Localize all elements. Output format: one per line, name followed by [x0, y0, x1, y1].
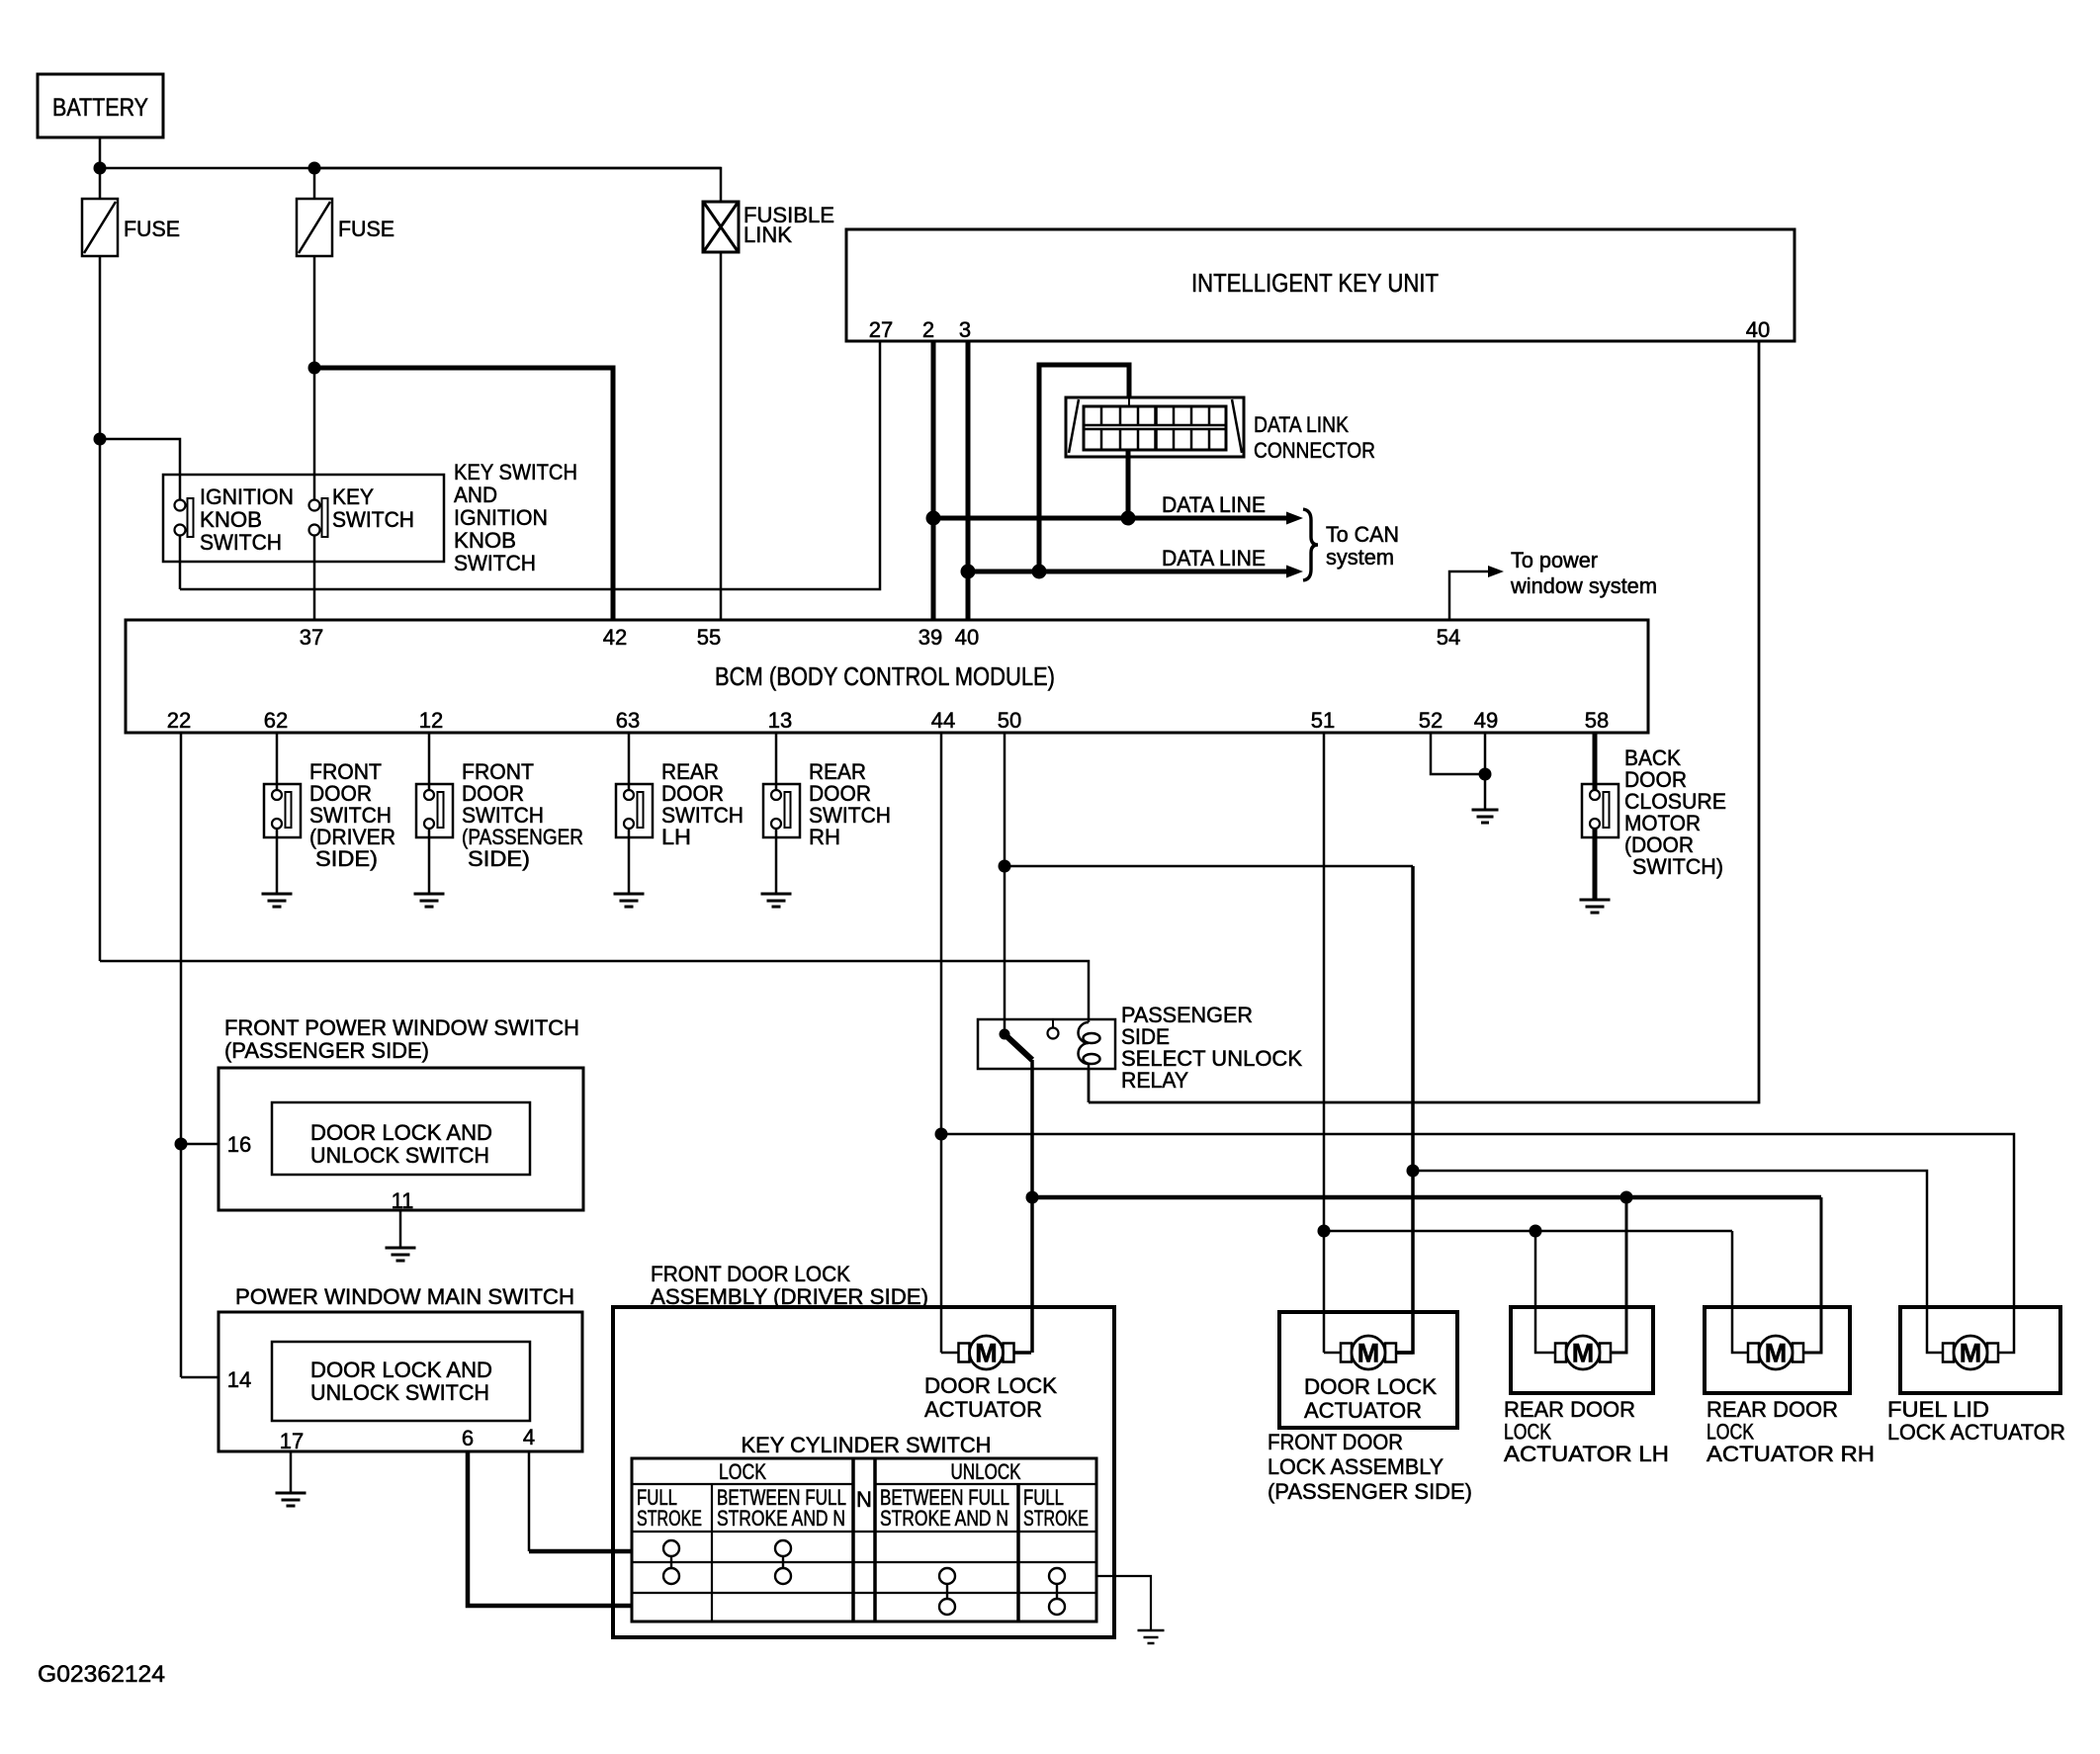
- svg-text:FRONT POWER WINDOW SWITCH: FRONT POWER WINDOW SWITCH: [224, 1015, 579, 1040]
- ground key cylinder: [1138, 1629, 1165, 1632]
- svg-text:58: 58: [1585, 708, 1609, 733]
- wire fusible link to pin55: [720, 252, 723, 620]
- wire top bus: [100, 167, 721, 170]
- wire BCM pin58 to back door motor: [1593, 733, 1598, 791]
- fusible link: [703, 202, 739, 252]
- svg-text:POWER WINDOW MAIN SWITCH: POWER WINDOW MAIN SWITCH: [235, 1284, 574, 1309]
- svg-text:UNLOCK SWITCH: UNLOCK SWITCH: [310, 1143, 489, 1168]
- svg-text:16: 16: [227, 1132, 251, 1157]
- wire pin11 to ground: [399, 1210, 402, 1248]
- node lock feed LH junction: [1620, 1191, 1633, 1204]
- svg-text:KNOB: KNOB: [200, 507, 262, 532]
- wire fuse1 bottom lead: [99, 256, 102, 439]
- svg-text:17: 17: [280, 1429, 304, 1453]
- wire pin50 branch right: [1005, 865, 1413, 868]
- wire to pin14: [181, 1376, 219, 1379]
- svg-text:RELAY: RELAY: [1121, 1068, 1188, 1093]
- door lock and unlock switch box (passenger): [272, 1102, 530, 1175]
- svg-text:ACTUATOR: ACTUATOR: [1304, 1398, 1422, 1423]
- door lock and unlock switch box (main): [272, 1342, 530, 1421]
- wire BCM pin52: [1431, 733, 1479, 774]
- wire ignition knob to pin27 line: [179, 535, 182, 589]
- ground pin17: [276, 1492, 306, 1495]
- rear door lock actuator RH box: [1705, 1307, 1850, 1393]
- svg-text:SIDE): SIDE): [315, 846, 378, 871]
- fuel lid lock actuator motor: [1943, 1344, 1954, 1362]
- svg-text:M: M: [1572, 1339, 1595, 1368]
- wire pin17 to ground: [290, 1451, 293, 1493]
- wire BCM pin22 down: [180, 733, 183, 1377]
- svg-text:FUSE: FUSE: [124, 217, 180, 241]
- wire front door switch passenger to ground: [428, 829, 431, 894]
- wire lock feed (thick): [1032, 1195, 1821, 1200]
- node pin49 junction: [1479, 768, 1492, 781]
- rear door switch LH: [616, 784, 653, 837]
- wire pin44 elbow to motor: [941, 1352, 959, 1355]
- svg-text:62: 62: [264, 708, 288, 733]
- svg-text:ACTUATOR: ACTUATOR: [924, 1397, 1042, 1422]
- wire IKU pin40 down: [1089, 341, 1759, 1102]
- rear door switch RH: [763, 784, 800, 837]
- svg-text:G02362124: G02362124: [38, 1661, 165, 1688]
- node x1429 junction: [1407, 1165, 1420, 1178]
- node key switch feed junction: [308, 362, 321, 375]
- relay fixed contact: [1052, 1019, 1054, 1027]
- svg-text:SWITCH: SWITCH: [332, 507, 414, 532]
- data line 2: [968, 570, 1287, 574]
- svg-text:SWITCH): SWITCH): [1632, 854, 1723, 879]
- wire BCM to front door switch driver: [276, 733, 279, 790]
- key cylinder unlock contacts x958: [939, 1568, 955, 1584]
- svg-text:44: 44: [931, 708, 955, 733]
- wire rear door switch LH to ground: [628, 829, 631, 894]
- svg-text:51: 51: [1311, 708, 1335, 733]
- wire pin51 elbow to motor: [1324, 1352, 1341, 1355]
- wire to power window system: [1449, 571, 1489, 620]
- svg-text:37: 37: [300, 625, 323, 650]
- node data line1 pin2 junction: [926, 511, 941, 526]
- node unlock feed LH junction: [1530, 1225, 1542, 1238]
- svg-text:SWITCH: SWITCH: [200, 530, 282, 555]
- svg-text:window system: window system: [1510, 573, 1657, 598]
- wire relay arm elbow to motor: [1014, 1351, 1032, 1355]
- svg-text:M: M: [1765, 1339, 1788, 1368]
- svg-text:DOOR LOCK AND: DOOR LOCK AND: [310, 1120, 492, 1145]
- wire battery bus to relay coil: [100, 961, 1089, 1019]
- wire pin4 down: [528, 1451, 531, 1551]
- wire relay coil to IKU pin40: [1088, 1069, 1091, 1102]
- svg-text:CONNECTOR: CONNECTOR: [1254, 438, 1375, 463]
- svg-text:49: 49: [1474, 708, 1498, 733]
- svg-text:KEY: KEY: [332, 484, 374, 509]
- svg-text:40: 40: [1746, 317, 1770, 342]
- node pin16 junction: [175, 1138, 188, 1151]
- front power window switch box: [219, 1068, 583, 1210]
- svg-text:STROKE: STROKE: [1023, 1506, 1089, 1531]
- wire unlock feed: [941, 1134, 2014, 1353]
- wire pin6 to key cylinder: [468, 1451, 632, 1606]
- battery: [38, 74, 163, 137]
- svg-text:M: M: [975, 1339, 998, 1368]
- svg-text:AND: AND: [454, 482, 497, 507]
- svg-text:IGNITION: IGNITION: [200, 484, 294, 509]
- svg-text:RH: RH: [809, 825, 840, 849]
- wire battery to ignition knob: [100, 439, 180, 500]
- back door closure motor switch: [1582, 784, 1619, 837]
- intelligent key unit box: [846, 229, 1794, 341]
- svg-text:To power: To power: [1511, 548, 1598, 572]
- ground front door switch passenger: [414, 893, 445, 896]
- svg-text:39: 39: [919, 625, 942, 650]
- front door switch driver: [264, 784, 301, 837]
- front door switch passenger: [416, 784, 453, 837]
- svg-text:STROKE AND N: STROKE AND N: [717, 1506, 845, 1531]
- svg-text:27: 27: [869, 317, 893, 342]
- wire key cylinder to ground: [1096, 1576, 1151, 1630]
- wire fuse1 top lead: [99, 168, 102, 199]
- wire back door motor to ground: [1593, 829, 1598, 900]
- svg-text:LOCK ACTUATOR: LOCK ACTUATOR: [1887, 1420, 2065, 1445]
- svg-text:4: 4: [523, 1425, 535, 1449]
- wire unlock feed to RH left: [1732, 1231, 1748, 1353]
- svg-text:UNLOCK: UNLOCK: [951, 1459, 1021, 1484]
- wire pin42 feed: [314, 368, 613, 620]
- node pin50 branch junction: [999, 860, 1011, 873]
- wire BCM pin49: [1484, 733, 1487, 810]
- svg-text:KEY SWITCH: KEY SWITCH: [454, 460, 577, 484]
- wire pin4 to key cylinder: [529, 1549, 632, 1554]
- wire to fuel lid left: [1413, 1171, 1943, 1353]
- fuse F1: [82, 199, 118, 256]
- relay coil: [1088, 1019, 1091, 1022]
- rear door lock actuator LH box: [1511, 1307, 1653, 1393]
- svg-text:IGNITION: IGNITION: [454, 505, 548, 530]
- wire BCM to front door switch passenger: [428, 733, 431, 790]
- relay arm: [1005, 1034, 1032, 1060]
- key cylinder unlock contacts x1069: [1049, 1568, 1065, 1584]
- svg-text:DOOR LOCK: DOOR LOCK: [1304, 1374, 1437, 1399]
- ground rear door switch LH: [614, 893, 645, 896]
- door lock actuator motor (passenger): [1341, 1344, 1352, 1362]
- svg-text:3: 3: [959, 317, 971, 342]
- wire key switch to BCM37: [313, 535, 316, 620]
- wire x1429 elbow to motor: [1396, 1351, 1413, 1355]
- wire DLC pass-through stubs: [1128, 397, 1130, 406]
- node pin44 junction: [935, 1128, 948, 1141]
- wire BCM to rear door switch RH: [775, 733, 778, 790]
- svg-text:BATTERY: BATTERY: [52, 94, 148, 122]
- front door lock assembly (driver side) box: [613, 1307, 1114, 1637]
- node fuse2 bus junction: [308, 162, 321, 175]
- svg-text:STROKE: STROKE: [637, 1506, 702, 1531]
- svg-text:STROKE AND N: STROKE AND N: [880, 1506, 1008, 1531]
- svg-text:DOOR LOCK AND: DOOR LOCK AND: [310, 1358, 492, 1382]
- svg-text:UNLOCK SWITCH: UNLOCK SWITCH: [310, 1380, 489, 1405]
- front door lock assembly (passenger side) box: [1279, 1312, 1457, 1428]
- rear door lock actuator RH motor: [1748, 1344, 1759, 1362]
- wire unlock feed 2: [1324, 1230, 1732, 1233]
- key cylinder lock contacts x792: [775, 1540, 791, 1556]
- svg-text:(PASSENGER SIDE): (PASSENGER SIDE): [224, 1038, 429, 1063]
- svg-text:FUEL LID: FUEL LID: [1887, 1397, 1989, 1422]
- BCM box: [126, 620, 1648, 733]
- rear door lock actuator LH motor: [1555, 1344, 1566, 1362]
- wire BCM pin51 down: [1323, 733, 1326, 1353]
- node data line2 DLC junction: [1032, 565, 1047, 579]
- ground back door motor: [1580, 899, 1611, 902]
- wire BCM pin44 down: [940, 733, 943, 1353]
- svg-text:ACTUATOR LH: ACTUATOR LH: [1504, 1442, 1669, 1466]
- svg-text:FRONT DOOR LOCK: FRONT DOOR LOCK: [651, 1262, 850, 1286]
- svg-text:ACTUATOR RH: ACTUATOR RH: [1706, 1442, 1875, 1466]
- wire unlock feed to LH left: [1535, 1231, 1555, 1353]
- wire relay arm down: [1030, 1060, 1034, 1353]
- wire fusible link top lead: [314, 168, 721, 202]
- svg-text:DOOR LOCK: DOOR LOCK: [924, 1373, 1057, 1398]
- node battery branch junction: [94, 433, 107, 446]
- svg-text:40: 40: [955, 625, 979, 650]
- svg-text:55: 55: [697, 625, 721, 650]
- svg-text:22: 22: [167, 708, 191, 733]
- wire IKU pin27 down: [180, 341, 880, 589]
- svg-text:INTELLIGENT KEY UNIT: INTELLIGENT KEY UNIT: [1191, 268, 1439, 298]
- wire IKU pin2 to BCM39: [931, 341, 936, 620]
- svg-text:52: 52: [1419, 708, 1443, 733]
- svg-text:12: 12: [419, 708, 443, 733]
- wire fuse2 top lead: [313, 168, 316, 199]
- node data line2 pin3 junction: [961, 565, 976, 579]
- node battery bus junction: [94, 162, 107, 175]
- svg-text:REAR DOOR: REAR DOOR: [1706, 1397, 1838, 1422]
- ground rear door switch RH: [761, 893, 792, 896]
- data line 1: [933, 516, 1287, 521]
- svg-text:M: M: [1960, 1339, 1982, 1368]
- svg-text:BCM (BODY CONTROL MODULE): BCM (BODY CONTROL MODULE): [715, 661, 1055, 691]
- svg-text:LINK: LINK: [744, 222, 792, 247]
- svg-text:2: 2: [922, 317, 934, 342]
- svg-text:(PASSENGER SIDE): (PASSENGER SIDE): [1268, 1479, 1472, 1504]
- svg-text:SIDE): SIDE): [468, 846, 530, 871]
- key switch and ignition knob switch box: [163, 475, 444, 562]
- fuel lid lock actuator box: [1900, 1307, 2060, 1393]
- node pin51 junction: [1318, 1225, 1331, 1238]
- svg-text:50: 50: [998, 708, 1021, 733]
- wire BCM pin50 down: [1004, 733, 1006, 1034]
- svg-text:11: 11: [392, 1188, 414, 1213]
- ground pin11: [386, 1247, 416, 1250]
- key switch: [309, 500, 320, 511]
- svg-text:DATA LINK: DATA LINK: [1254, 412, 1349, 437]
- svg-text:DATA LINE: DATA LINE: [1162, 546, 1266, 570]
- fuse F2: [297, 199, 332, 256]
- svg-text:LOCK: LOCK: [1504, 1420, 1551, 1445]
- svg-text:42: 42: [603, 625, 627, 650]
- svg-text:14: 14: [227, 1367, 251, 1392]
- to CAN brace: [1303, 509, 1318, 580]
- wire fuse2 bottom lead: [313, 256, 316, 368]
- svg-text:KNOB: KNOB: [454, 528, 516, 553]
- wire lock feed to LH right: [1611, 1197, 1626, 1353]
- relay common pivot: [1000, 1029, 1010, 1040]
- door lock actuator motor (driver): [959, 1344, 970, 1362]
- svg-text:To CAN: To CAN: [1326, 522, 1399, 547]
- svg-text:system: system: [1326, 545, 1394, 570]
- wire lock feed to RH right: [1803, 1197, 1821, 1353]
- wire x1429 vertical: [1396, 866, 1413, 1353]
- svg-text:DATA LINE: DATA LINE: [1162, 492, 1266, 517]
- wire DLC top elbow: [1039, 365, 1129, 571]
- wire battery main down: [99, 439, 102, 961]
- svg-text:N: N: [856, 1487, 872, 1512]
- wire rear door switch RH to ground: [775, 829, 778, 894]
- svg-text:54: 54: [1437, 625, 1460, 650]
- wire DLC bottom stem: [1126, 450, 1131, 518]
- wire IKU pin3 to BCM40: [966, 341, 971, 620]
- svg-text:FUSE: FUSE: [338, 217, 394, 241]
- node data line1 DLC junction: [1121, 511, 1136, 526]
- svg-text:FRONT DOOR: FRONT DOOR: [1268, 1430, 1403, 1454]
- svg-text:63: 63: [616, 708, 640, 733]
- svg-text:KEY CYLINDER SWITCH: KEY CYLINDER SWITCH: [742, 1433, 992, 1457]
- svg-text:LOCK ASSEMBLY: LOCK ASSEMBLY: [1268, 1454, 1444, 1479]
- ground front door switch driver: [262, 893, 293, 896]
- svg-text:6: 6: [462, 1426, 474, 1450]
- ground pin49: [1472, 809, 1499, 812]
- data link connector: [1066, 397, 1244, 457]
- node relay arm junction: [1026, 1191, 1039, 1204]
- wire fuse2 to key switch: [313, 368, 316, 500]
- power window main switch box: [219, 1312, 582, 1451]
- key cylinder switch table: [632, 1458, 1096, 1622]
- svg-text:REAR DOOR: REAR DOOR: [1504, 1397, 1635, 1422]
- svg-text:13: 13: [768, 708, 792, 733]
- svg-text:SWITCH: SWITCH: [454, 551, 536, 575]
- svg-text:LH: LH: [661, 825, 691, 849]
- svg-text:LOCK: LOCK: [1706, 1420, 1754, 1445]
- wire BCM to rear door switch LH: [628, 733, 631, 790]
- svg-text:M: M: [1357, 1339, 1380, 1368]
- passenger side select unlock relay box: [978, 1019, 1115, 1069]
- ignition knob switch: [175, 500, 186, 511]
- wire battery stem: [99, 137, 102, 168]
- wire front door switch driver to ground: [276, 829, 279, 894]
- svg-text:LOCK: LOCK: [719, 1459, 766, 1484]
- key cylinder lock contacts x679: [663, 1540, 679, 1556]
- wire to pin16: [181, 1143, 219, 1146]
